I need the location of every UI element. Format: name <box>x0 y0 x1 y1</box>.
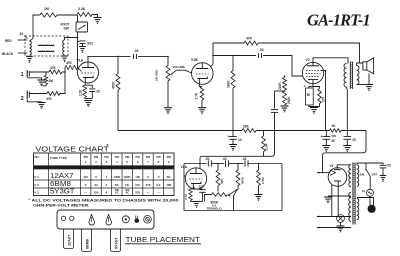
svg-text:12AX7: 12AX7 <box>50 173 74 180</box>
svg-text:V1A: V1A <box>77 59 84 63</box>
wire CT <box>328 195 351 197</box>
svg-text:20: 20 <box>96 90 100 94</box>
transformer T3 HV winding <box>349 165 351 187</box>
wire <box>77 15 79 22</box>
ground <box>94 18 102 24</box>
wire RED lead <box>5 39 27 43</box>
wire tip <box>29 71 49 73</box>
wire <box>357 63 363 66</box>
wire mains <box>357 163 383 165</box>
svg-text:22: 22 <box>94 183 98 187</box>
label TUBE PLACEMENT <box>125 235 201 244</box>
wire <box>167 81 169 108</box>
wire <box>263 56 302 77</box>
wire <box>256 130 330 132</box>
svg-text:2.7K: 2.7K <box>195 92 199 99</box>
tab 6BM8 <box>82 229 92 252</box>
svg-text:.02: .02 <box>205 157 210 161</box>
tube placement chassis box <box>57 210 154 229</box>
svg-text:—: — <box>84 190 87 194</box>
svg-text:.001: .001 <box>87 42 94 46</box>
resistor 2.2K <box>78 85 86 98</box>
potentiometer 500K tremolo <box>207 193 228 211</box>
ground <box>255 195 263 201</box>
input jack 2 <box>21 91 30 103</box>
svg-text:PIN: PIN <box>104 156 108 159</box>
svg-text:OHM-PER-VOLT METER.: OHM-PER-VOLT METER. <box>33 203 90 207</box>
capacitor .02 line <box>380 164 392 176</box>
wire <box>77 32 79 68</box>
input jack 1 <box>21 70 30 78</box>
svg-text:2: 2 <box>21 96 24 102</box>
wiper wire <box>171 70 192 74</box>
wire <box>138 55 168 57</box>
resistor 22K <box>242 125 256 133</box>
wire plate stub <box>199 164 201 169</box>
svg-text:RED: RED <box>5 39 12 43</box>
hole b <box>70 216 74 220</box>
switch ON OFF <box>360 163 378 177</box>
chart footnote <box>29 198 179 207</box>
ground <box>164 108 172 114</box>
svg-text:220: 220 <box>199 185 204 189</box>
svg-text:GA-1RT-1: GA-1RT-1 <box>307 11 370 30</box>
svg-text:560K: 560K <box>240 176 244 184</box>
ground <box>365 85 373 91</box>
wire junctions <box>45 37 348 174</box>
resistor 47K c <box>46 92 60 101</box>
transformer T3 primary upper <box>357 165 359 187</box>
wire plate feed <box>200 131 275 164</box>
resistor 47K rail <box>244 37 258 46</box>
capacitor trem inject <box>271 91 278 131</box>
transformer T2 secondary <box>357 66 359 85</box>
wire grid <box>78 68 82 72</box>
svg-text:470K: 470K <box>112 81 116 89</box>
ground <box>310 108 318 114</box>
svg-text:50: 50 <box>307 93 311 97</box>
wire <box>92 15 98 18</box>
wire B+ distribution <box>118 130 242 132</box>
svg-text:220K: 220K <box>264 142 268 150</box>
resistor 47K b <box>65 61 78 70</box>
svg-text:.02: .02 <box>134 49 139 53</box>
tab 5Y3GT <box>111 229 121 252</box>
resistor 56K <box>216 164 224 192</box>
wire B+ takeoff <box>317 172 330 174</box>
wire <box>357 84 366 86</box>
svg-text:TREMOLO: TREMOLO <box>207 207 223 211</box>
svg-text:220K: 220K <box>278 82 282 90</box>
transformer T3 primary lower <box>357 199 359 220</box>
socket V1 <box>89 215 95 226</box>
svg-text:22K: 22K <box>243 125 250 129</box>
ground <box>84 101 92 107</box>
ground <box>337 226 345 232</box>
svg-text:5W: 5W <box>332 134 337 138</box>
title GA-1RT-1 <box>307 11 370 30</box>
svg-text:1M: 1M <box>44 7 49 11</box>
transformer T1 winding a <box>38 45 54 46</box>
wire filament lead b <box>317 227 351 229</box>
wire BLACK lead <box>2 52 27 56</box>
svg-text:255: 255 <box>94 190 99 194</box>
svg-text:3.3K: 3.3K <box>78 7 86 11</box>
svg-text:AC: AC <box>115 192 119 195</box>
svg-text:TUBE PLACEMENT: TUBE PLACEMENT <box>126 235 201 244</box>
wire <box>368 74 370 85</box>
svg-text:4.7K: 4.7K <box>184 193 188 200</box>
svg-text:.02: .02 <box>242 157 247 161</box>
wire plate <box>313 58 348 64</box>
svg-text:PIN: PIN <box>156 156 160 159</box>
resistor 1M <box>40 7 57 17</box>
socket V2 <box>106 215 112 226</box>
footswitch SW <box>61 22 88 32</box>
fuse 1A <box>362 189 374 196</box>
tab 12AX7 <box>64 229 74 249</box>
ground <box>229 145 237 151</box>
wire sleeve <box>27 100 41 103</box>
svg-text:6BM8: 6BM8 <box>50 181 71 188</box>
svg-text:V3: V3 <box>330 164 334 168</box>
resistor 2.7K <box>195 87 204 101</box>
svg-text:1.5M: 1.5M <box>261 177 265 184</box>
svg-text:2.2: 2.2 <box>156 183 160 187</box>
svg-text:VOLTAGE CHART: VOLTAGE CHART <box>35 145 109 154</box>
wire <box>65 38 78 41</box>
svg-text:+: + <box>304 85 306 89</box>
wire grid stub <box>184 175 186 177</box>
svg-text:215: 215 <box>135 183 140 187</box>
svg-text:330K: 330K <box>227 80 231 88</box>
wire <box>85 98 93 100</box>
wire <box>57 14 77 16</box>
resistor 1K 5W <box>330 124 342 138</box>
resistor 220K <box>278 76 287 90</box>
resistor 47K a <box>49 66 62 74</box>
tube V2 <box>302 58 323 84</box>
transformer T1 winding b <box>38 51 54 52</box>
fuse holder <box>144 216 152 224</box>
svg-text:V1B: V1B <box>191 58 198 62</box>
ground <box>38 103 46 109</box>
svg-text:ALL DC VOLTAGES MEASURED TO CH: ALL DC VOLTAGES MEASURED TO CHASSIS WITH… <box>32 199 179 203</box>
resistor 1.5M <box>257 164 265 195</box>
svg-text:10: 10 <box>238 138 242 142</box>
cathode network V2A <box>193 187 195 189</box>
svg-text:PIN: PIN <box>167 156 171 159</box>
resistor 250K <box>283 91 292 105</box>
svg-text:FIL: FIL <box>167 175 172 179</box>
wire <box>191 201 203 203</box>
ground <box>343 146 351 152</box>
ground <box>322 146 330 152</box>
svg-text:OFF: OFF <box>372 173 378 177</box>
capacitor 20 <box>85 85 100 98</box>
wire <box>201 100 203 108</box>
resistor 330K <box>227 56 236 89</box>
wire <box>369 176 371 189</box>
resistor 560K <box>236 164 244 190</box>
svg-text:—: — <box>147 190 150 194</box>
transformer T3 core <box>353 163 355 225</box>
capacitor .02 coupling2 <box>259 48 264 58</box>
svg-text:33: 33 <box>20 32 24 36</box>
resistor 1M input <box>43 72 54 86</box>
capacitor .02 coupling <box>134 49 139 59</box>
label 33 <box>20 32 28 39</box>
svg-text:.02: .02 <box>387 164 392 168</box>
wire B+ node <box>88 55 131 57</box>
cathode wire <box>198 84 200 87</box>
resistor 270 <box>313 87 325 104</box>
capacitor +40 <box>321 131 336 146</box>
transformer T2 core <box>350 62 352 90</box>
svg-text:47K: 47K <box>50 66 57 70</box>
svg-text:PIN: PIN <box>94 156 98 159</box>
wire <box>117 90 119 131</box>
tube V2A <box>181 165 207 189</box>
svg-text:+: + <box>321 135 323 139</box>
svg-text:278: 278 <box>135 190 140 194</box>
wire B+ rail <box>213 42 244 44</box>
resistor 3.3K <box>77 7 92 17</box>
svg-text:BLACK: BLACK <box>2 52 14 56</box>
wire filament lead a <box>317 216 351 218</box>
plug <box>368 205 376 213</box>
cathode wire <box>312 84 314 87</box>
shield box (dashed) <box>25 36 68 56</box>
svg-text:NO.: NO. <box>35 155 40 159</box>
ground <box>324 197 332 203</box>
wire sleeve <box>27 78 41 80</box>
svg-text:AC: AC <box>125 192 129 195</box>
svg-text:1K: 1K <box>332 124 337 128</box>
wire <box>33 15 40 39</box>
potentiometer VOLUME 1M AUD <box>155 56 185 81</box>
wire <box>205 195 212 202</box>
ground <box>26 57 33 63</box>
ground <box>281 106 289 112</box>
svg-text:5Y3GT: 5Y3GT <box>115 237 119 249</box>
wire <box>369 196 371 205</box>
capacitor +10 <box>228 131 242 145</box>
capacitor 50uF <box>304 85 314 106</box>
svg-text:47K: 47K <box>46 97 53 101</box>
resistor 470K <box>112 56 121 90</box>
voltage chart table <box>34 144 175 196</box>
wire <box>60 72 65 94</box>
wire <box>341 130 366 132</box>
ground <box>193 202 200 208</box>
wire heater lead <box>331 185 333 217</box>
speaker <box>363 58 374 74</box>
switch arm <box>228 189 238 197</box>
capacitor .02 osc c <box>242 157 248 167</box>
svg-text:47K: 47K <box>246 37 253 41</box>
wire tip <box>29 93 47 95</box>
cathode network V1A wire <box>84 83 86 85</box>
capacitor .001 <box>78 41 94 47</box>
wire <box>213 55 256 57</box>
transformer T2 primary <box>344 64 346 88</box>
svg-text:GND: GND <box>114 175 120 179</box>
svg-text:6BM8: 6BM8 <box>86 239 90 249</box>
wire B+ from rectifier <box>323 131 367 173</box>
wire node <box>62 68 65 73</box>
svg-text:180: 180 <box>166 183 171 187</box>
svg-text:ON: ON <box>360 173 364 177</box>
wire <box>232 88 234 131</box>
svg-text:*: * <box>107 144 109 150</box>
svg-text:.02: .02 <box>223 157 228 161</box>
svg-text:1: 1 <box>21 72 24 78</box>
svg-text:PIN: PIN <box>146 156 150 159</box>
svg-text:PIN: PIN <box>125 156 129 159</box>
svg-text:278: 278 <box>146 183 151 187</box>
wire <box>234 190 239 211</box>
ground <box>380 176 387 182</box>
svg-text:47K: 47K <box>66 61 73 65</box>
wire <box>345 87 348 131</box>
wire screen <box>321 71 326 131</box>
resistor 220K osc <box>262 131 269 157</box>
transformer T3 filament winding <box>349 193 351 222</box>
wire plate 2 lead <box>337 181 339 217</box>
ground <box>198 108 206 114</box>
svg-text:V 2: V 2 <box>34 183 39 187</box>
socket V3 <box>122 216 129 223</box>
wire plate <box>87 56 89 62</box>
wire <box>229 163 244 165</box>
svg-text:FIL: FIL <box>115 183 120 187</box>
svg-text:100: 100 <box>135 175 140 179</box>
svg-text:GND: GND <box>124 175 130 179</box>
ground <box>38 80 46 86</box>
ground <box>61 56 68 62</box>
transformer T1 primary coil <box>30 39 34 56</box>
wire plate <box>210 43 213 67</box>
wire <box>340 222 342 226</box>
tube V1A <box>77 59 99 84</box>
svg-text:PIN: PIN <box>115 156 119 159</box>
svg-text:270: 270 <box>321 96 325 102</box>
wire <box>337 165 351 170</box>
svg-text:V2A: V2A <box>181 165 188 169</box>
pilot lamp <box>337 215 345 223</box>
capacitor .02 osc b <box>223 157 229 167</box>
svg-text:V 3: V 3 <box>34 190 39 194</box>
resistor 4.7K <box>184 189 194 202</box>
svg-text:20: 20 <box>352 138 356 142</box>
tube V3 rectifier <box>328 164 347 186</box>
svg-text:V 1: V 1 <box>34 175 39 179</box>
svg-text:VOLUME: VOLUME <box>173 65 185 69</box>
svg-text:115: 115 <box>83 175 88 179</box>
svg-text:12AX7: 12AX7 <box>68 235 72 246</box>
svg-text:PIN: PIN <box>136 156 140 159</box>
tremolo enclosure box <box>184 164 282 211</box>
wire <box>357 198 374 206</box>
svg-text:V2: V2 <box>306 58 310 62</box>
svg-text:.5: .5 <box>157 175 160 179</box>
transformer T1 secondary coil <box>63 40 65 55</box>
wire <box>258 43 360 64</box>
hole a <box>61 216 65 220</box>
capacitor .02 osc a <box>205 157 211 167</box>
svg-text:2.2K: 2.2K <box>78 89 82 96</box>
wire <box>309 104 320 107</box>
ground <box>79 47 86 53</box>
pilot jewel <box>135 216 140 223</box>
svg-text:.02: .02 <box>259 48 264 52</box>
wire <box>211 163 224 165</box>
svg-text:5Y3GT: 5Y3GT <box>50 189 75 196</box>
svg-text:250K: 250K <box>287 96 291 104</box>
tube V1B <box>191 58 213 84</box>
svg-text:PIN: PIN <box>84 156 88 159</box>
svg-text:1M: 1M <box>49 79 54 83</box>
svg-text:TUBE TYPE: TUBE TYPE <box>50 156 67 160</box>
svg-text:SW: SW <box>64 27 70 31</box>
capacitor 220 <box>194 185 206 202</box>
svg-text:+: + <box>228 135 230 139</box>
capacitor 20 filter <box>344 131 357 146</box>
svg-text:—: — <box>157 190 160 194</box>
node junction <box>275 90 286 91</box>
svg-text:1M AUD: 1M AUD <box>155 69 159 81</box>
svg-text:56K: 56K <box>220 178 224 184</box>
svg-text:FIL: FIL <box>125 183 130 187</box>
svg-text:40: 40 <box>331 139 335 143</box>
